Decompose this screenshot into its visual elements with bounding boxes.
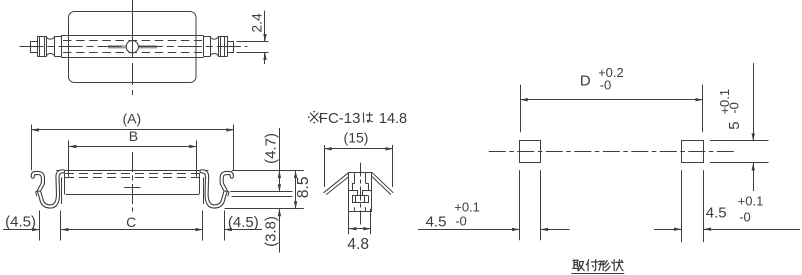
label mounting shape (kanji) [571, 260, 624, 274]
dimension 5 [710, 63, 769, 191]
svg-text:2.4: 2.4 [249, 13, 265, 33]
bar hidden dashed lines [63, 41, 202, 53]
svg-text:14.8: 14.8 [379, 111, 407, 127]
right spring clip [202, 171, 232, 206]
center circle [126, 41, 138, 53]
svg-text:8.5: 8.5 [295, 177, 312, 199]
fuse body front [62, 173, 204, 204]
clip body profile [349, 173, 372, 212]
horizontal axis line [20, 46, 248, 48]
base plate rounded rect [69, 12, 197, 83]
dimension 4.8 [347, 209, 370, 253]
svg-text:(4.5): (4.5) [228, 214, 259, 231]
svg-text:4.8: 4.8 [347, 236, 369, 253]
dimension 2.4 [237, 11, 269, 65]
svg-text:-0: -0 [727, 102, 742, 114]
svg-text:5: 5 [726, 121, 743, 129]
svg-text:(15): (15) [344, 130, 369, 146]
reference mark [310, 113, 318, 121]
left terminal [31, 36, 62, 57]
underline [571, 273, 624, 275]
svg-text:(4.7): (4.7) [263, 133, 280, 164]
middle element lines [108, 46, 157, 48]
svg-text:-0: -0 [455, 213, 467, 228]
pattern center line [489, 151, 736, 153]
svg-text:+0.1: +0.1 [738, 193, 764, 208]
dimension (A) [31, 110, 233, 170]
left spring clip [33, 171, 63, 206]
note text FC-13 [308, 110, 407, 127]
svg-text:D: D [580, 73, 591, 90]
svg-text:FC-13: FC-13 [319, 110, 361, 127]
svg-text:4.5: 4.5 [426, 213, 447, 230]
svg-text:(4.5): (4.5) [5, 214, 36, 231]
svg-text:(3.8): (3.8) [263, 216, 280, 247]
top plate [56, 171, 208, 173]
dimension (4.7) [263, 128, 282, 192]
svg-text:C: C [126, 214, 136, 230]
right hole [682, 141, 704, 163]
svg-text:(A): (A) [122, 110, 141, 126]
side view center line [360, 163, 362, 226]
dimension (3.8) [263, 209, 282, 253]
kanji fu [587, 260, 598, 271]
svg-text:B: B [129, 128, 138, 144]
svg-text:-0: -0 [739, 209, 751, 224]
right side extension lines [225, 171, 304, 209]
left hole [520, 141, 541, 163]
right terminal [203, 36, 233, 57]
clip wings [324, 172, 394, 194]
kanji jou [612, 260, 623, 271]
fuse bar outline [61, 36, 204, 58]
hiragana ha [363, 113, 372, 123]
kanji tori [573, 260, 585, 271]
dimension (15) [324, 130, 393, 187]
dimension B [69, 128, 197, 177]
kanji kei [599, 261, 610, 271]
svg-text:-0: -0 [600, 77, 612, 92]
dimension C and (4.5) pair [3, 211, 262, 241]
dimension D [520, 65, 703, 132]
svg-text:+0.1: +0.1 [454, 199, 480, 214]
dimension 4.5 right [654, 170, 800, 242]
vertical center line [132, 0, 134, 95]
svg-text:4.5: 4.5 [706, 205, 727, 222]
front center line [124, 152, 140, 212]
dimension 4.5 left [418, 170, 570, 240]
dimension 8.5 [294, 171, 312, 209]
